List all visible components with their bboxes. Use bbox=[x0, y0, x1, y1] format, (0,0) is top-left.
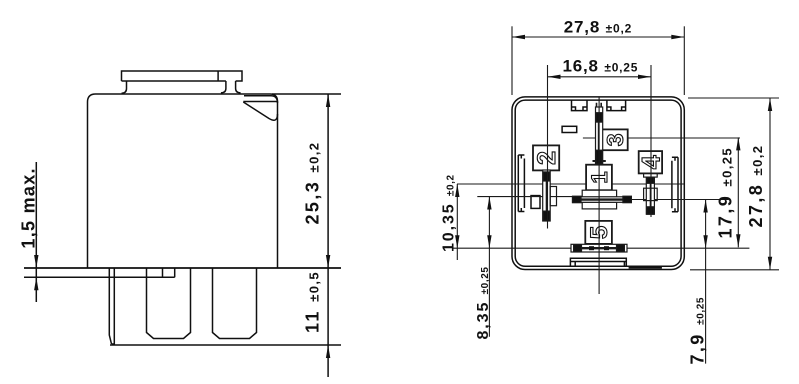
svg-text:5: 5 bbox=[586, 226, 613, 239]
svg-text:1,5 max.: 1,5 max. bbox=[19, 167, 39, 248]
svg-text:3: 3 bbox=[602, 133, 628, 146]
